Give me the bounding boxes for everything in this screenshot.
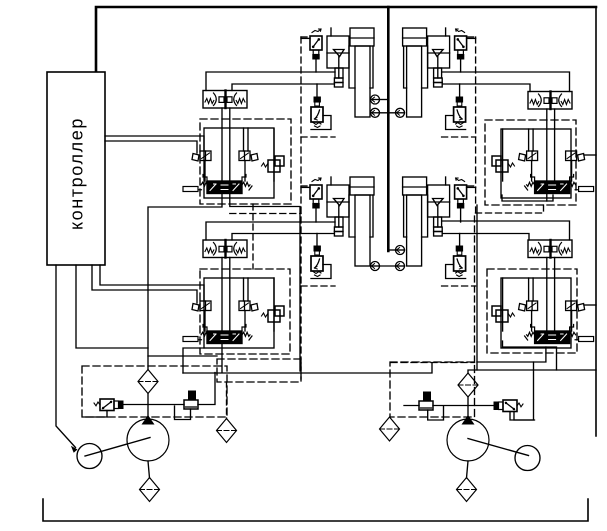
breather diamond F2 [217,419,237,443]
wire LL A-out to return [221,344,223,373]
relief valve UR w/ drop wire [502,129,504,181]
wire R1 drain [83,411,107,418]
wire BR port to center [388,249,395,251]
wires solenoid to prop valve LL [204,311,206,332]
solenoid valve UL-a [192,151,211,161]
wire V2 TL right drain [311,116,331,130]
wires solenoid to prop valve UR [531,161,533,182]
wire V1 BL down [315,208,317,222]
valve V1 TR [455,29,467,59]
wire F1R to pump [467,397,469,419]
dashed BL enclosure bottom [301,285,335,287]
wire LL box corner down [183,348,204,373]
wire V2 BR left drain [446,265,466,279]
cylinder TR [403,28,428,117]
diamond F3R below P2 [457,478,477,502]
right trunk down [476,205,478,370]
drain dashed UL to LL [252,204,254,269]
drain dashed UR down [475,205,544,362]
relief valve UL w/ drop wire [273,129,275,181]
check block Z1 (upper-left) [203,91,247,109]
valve assembly LR dashed enclosure [487,269,577,353]
wire V2 BR top [459,234,461,247]
port BR upper [396,246,405,255]
port BR lower [396,262,405,271]
port TL lower [371,108,380,117]
right pump dashed enclosure [390,362,475,417]
wire CV1 bypass loop [175,406,191,420]
dashed TL enclosure bottom [301,136,335,138]
bottom frame rail [43,499,588,521]
diamond F3 below P1 [140,478,160,502]
wire CV2 bypass loop [428,406,444,420]
wire Z2 ports down through LL box [221,258,223,332]
solenoid valve UL-b [239,151,258,161]
valve assembly LR solid box [501,278,571,348]
wire pump P1 drain [148,461,150,478]
valve assembly UL dashed enclosure [200,119,291,204]
wire BL-BR ports [380,265,396,267]
wire Z2 top to BL funnel [206,222,335,240]
wire controller to motor arrow [56,265,76,448]
wire controller to UL solenoid [105,136,204,151]
left drain dashed enclosure [217,359,301,382]
relief valve LR w/ drop wire [502,278,504,331]
wire frame to UR-b flag [584,154,596,156]
cylinder TL [349,28,374,117]
valve assembly LL solid box [204,278,274,348]
breather diamond F2R [380,417,400,441]
wire R2 to pump line [468,405,494,407]
valve assembly UR dashed enclosure [485,120,576,205]
relief valve R1 [94,399,123,411]
wire controller to LL solenoid [100,265,204,301]
check block Z2 (mid-left) [203,240,247,258]
wire controller to LL solenoid flag [92,265,197,303]
wires LL-b solenoid feeds [243,278,245,301]
wire controller to pump suction [76,265,148,348]
funnel TL [327,28,349,87]
wires solenoid to prop valve LR [531,311,533,332]
svg-text:контроллер: контроллер [67,117,87,230]
top frame thick wire [96,7,596,72]
funnel BR [428,177,450,236]
filter diamond F1R [458,373,478,397]
wire pump P2 drain [467,461,469,478]
wire UR U-link below box [502,195,553,201]
wire TL-TR ports [380,112,396,114]
dashed vertical left cylinder enclosure [300,37,302,379]
wire V1 TR right [467,37,476,39]
port TL upper [371,95,380,104]
shaft M1-P1 [85,438,150,457]
wire V1 TR down [460,59,462,72]
port BL [371,262,380,271]
cylinder BL [349,177,374,266]
controller U1 [47,72,105,265]
solenoid valve UR-a [519,151,538,161]
valve V2 TL [311,97,323,128]
prop valve LL [183,325,252,344]
wire V1 BL left [301,186,310,188]
pump P1 [127,415,169,461]
wire controller to UL solenoid flag [105,141,197,153]
valve V2 TR [454,97,466,128]
prop valve UL [183,175,252,194]
funnel BL [327,177,349,236]
wire Z1 top2 to TL funnel [232,84,334,91]
relief valve R2 [494,400,523,412]
wire V2 TR top [459,84,461,97]
dashed BR enclosure bottom [442,285,476,287]
valve V2 BL [311,246,323,277]
valve V1 BL [310,178,322,208]
wire LR U-link to pump diamond [468,341,557,373]
relief valve LL w/ drop wire [273,278,275,331]
wire R1 to pump line [123,404,184,406]
dashed TR enclosure bottom [442,136,476,138]
check valve CV2 [419,392,433,410]
valve assembly UL solid box [204,128,274,198]
wires solenoid to prop valve UL [204,161,206,182]
dashed return to right pump [391,362,475,364]
check valve CV1 [184,391,198,409]
motor M2 circle [515,446,540,471]
valve assembly LL dashed enclosure [200,269,290,354]
port TR [396,108,405,117]
dashed vertical right cylinder enclosure [475,37,477,213]
motor M1 circle [77,444,102,469]
wire CV2 right [433,405,468,407]
solenoid valve LL-a [192,301,211,311]
central thick feedback wire [387,7,390,251]
check block Z3 (upper-right) [528,92,572,110]
solenoid valve UR-b [566,151,585,161]
wire UL B-out to return [230,194,300,372]
wire CV1 up [198,373,215,405]
valve assembly UR solid box [501,129,571,198]
return line left [183,363,432,373]
wire UL A-out to pump line [148,194,222,370]
valve V2 BR [454,246,466,277]
funnel TR [428,28,450,87]
wire pump line branch [148,355,217,357]
prop valve LR [525,325,594,344]
wire Z3 top2 to TR funnel [442,84,530,92]
wires UR-a solenoid feeds [528,129,530,151]
valve V1 TL [310,29,322,59]
wires UL-b solenoid feeds [243,128,245,151]
pump P2 [447,415,489,461]
wire R2 drain [510,412,535,420]
wire V2 BL right drain [311,265,331,279]
wire V1 BR down [460,208,462,222]
solenoid valve LL-b [239,301,258,311]
wire F1 to pump [147,394,149,419]
wire Z1 B-port down through UL box [229,108,231,181]
solenoid valve LR-a [519,301,538,311]
right frame wire [595,7,597,436]
wire V2 TL top [316,84,318,97]
wire TL port to center [380,99,389,101]
cylinder BR [403,177,428,266]
filter diamond F1 [138,370,158,394]
wire V1 BR right [467,186,476,188]
wires LR-a solenoid feeds [528,278,530,301]
wire Z3 ports down through UR box [546,109,548,181]
left pump dashed enclosure [82,366,227,417]
wire Z1 A-port down through UL box [221,108,223,181]
dashed F2 feed [226,382,228,419]
wire V1 TL down [315,59,317,72]
wire V2 BL top [316,234,318,247]
wire Z2 top2 to BL funnel [232,234,334,241]
drain dashed UL to right [230,213,301,215]
wire Z3 top to TR funnel [442,72,569,92]
wire frame to LR-b flag [584,304,596,306]
wire Z4 ports down through LR box [546,258,548,332]
solenoid valve LR-b [566,301,585,311]
prop valve UR [525,175,594,194]
wire V1 TL left [301,37,310,39]
wire Z4 top to BR funnel [442,221,569,240]
wire Z1 top to TL funnel [206,72,335,91]
shaft P2-M2 [468,439,529,456]
valve V1 BR [455,178,467,208]
wire LR B-out to relief drain [477,347,546,362]
wire CV2 left [404,405,419,407]
check block Z4 (mid-right) [528,240,572,258]
wire V2 TR left drain [446,116,466,130]
wire Z4 top2 to BR funnel [442,234,529,241]
